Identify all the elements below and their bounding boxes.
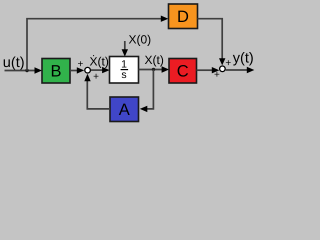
summing junction S2 bbox=[220, 66, 226, 72]
wire initial condition X(0) bbox=[124, 41, 126, 50]
arrowhead X(0) into integrator top bbox=[122, 49, 128, 56]
svg-text:+: + bbox=[214, 70, 220, 81]
svg-text:B: B bbox=[50, 63, 61, 81]
node state x(t) junction bbox=[152, 68, 155, 71]
svg-text:y(t): y(t) bbox=[233, 50, 254, 66]
block B bbox=[42, 59, 70, 84]
svg-text:+: + bbox=[225, 58, 231, 69]
wire A to sum S1 bbox=[87, 81, 110, 109]
arrowhead into integrator bbox=[102, 67, 110, 73]
svg-text:A: A bbox=[119, 101, 130, 119]
arrowhead D into S2 top bbox=[219, 58, 225, 65]
wire D to sum S2 bbox=[198, 19, 223, 59]
block D bbox=[169, 4, 198, 29]
svg-text:X(0): X(0) bbox=[129, 33, 152, 47]
wire B to sum S1 bbox=[70, 70, 78, 72]
node branch junction on input wire bbox=[25, 69, 28, 72]
svg-text:D: D bbox=[177, 8, 189, 26]
arrowhead output bbox=[247, 67, 255, 73]
arrowhead into S2 bbox=[212, 67, 220, 73]
arrowhead into B bbox=[35, 67, 43, 73]
arrowhead A into S1 bottom bbox=[84, 74, 90, 82]
svg-text:+: + bbox=[93, 71, 99, 82]
svg-text:+: + bbox=[77, 59, 83, 70]
wire input u(t) bbox=[5, 70, 37, 72]
block C bbox=[169, 59, 197, 84]
arrowhead into A bbox=[140, 106, 148, 112]
integrator block 1/s bbox=[110, 57, 139, 84]
svg-text:s: s bbox=[121, 69, 126, 81]
wire branch up to D bbox=[27, 19, 162, 71]
arrowhead into C bbox=[162, 66, 170, 72]
wire S1 to integrator bbox=[91, 69, 103, 71]
svg-text:X(t): X(t) bbox=[145, 53, 164, 67]
wire S2 to output bbox=[226, 69, 247, 71]
arrowhead into S1 bbox=[77, 67, 84, 73]
svg-text:C: C bbox=[177, 63, 189, 81]
wire integrator to C bbox=[139, 69, 163, 71]
arrowhead into D bbox=[161, 16, 169, 22]
summing junction S1 bbox=[85, 67, 91, 73]
svg-text:u(t): u(t) bbox=[3, 55, 25, 71]
svg-text:Ẋ(t): Ẋ(t) bbox=[90, 55, 109, 69]
wire C to sum S2 bbox=[197, 69, 213, 71]
wire feedback tap down to A bbox=[147, 70, 154, 109]
block A bbox=[110, 97, 139, 122]
